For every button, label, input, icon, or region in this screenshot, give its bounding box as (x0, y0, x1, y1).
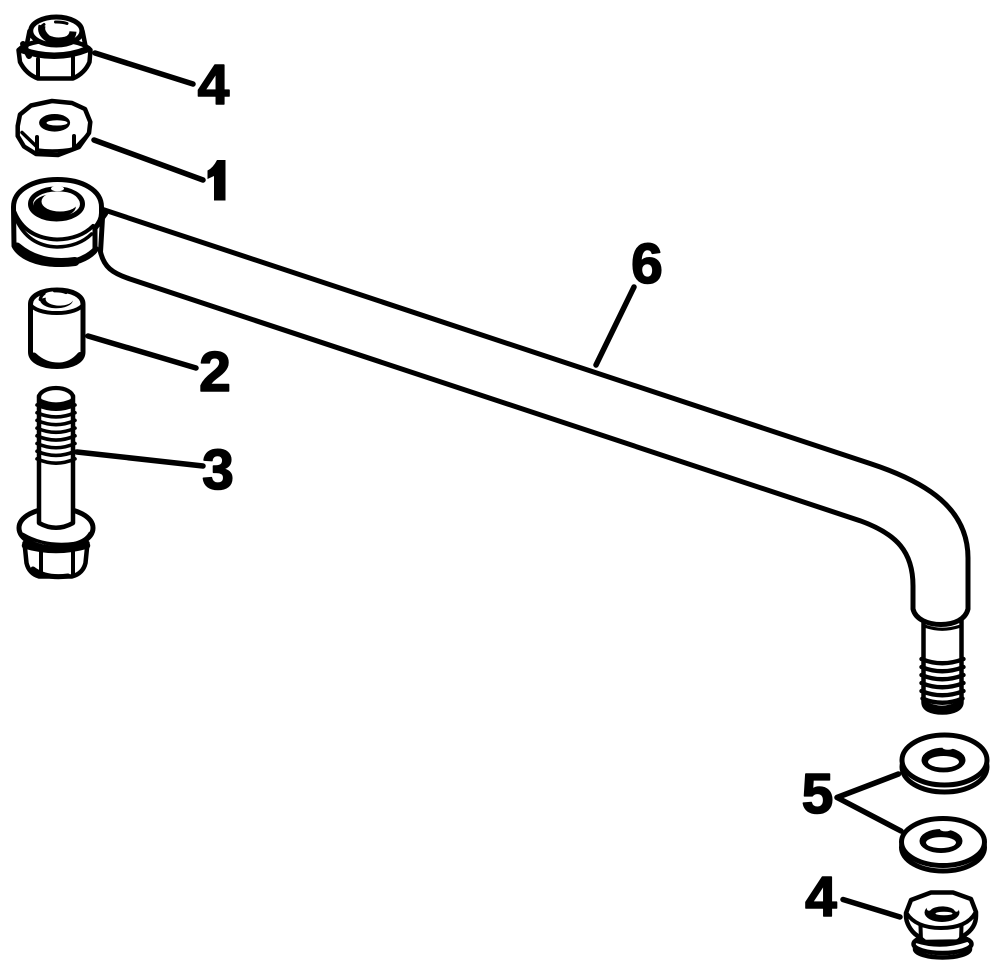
washer 5 (lower) (902, 819, 985, 872)
leader line to label 4 (top) (95, 53, 193, 84)
washer 5 (upper) (902, 735, 987, 792)
nut 4 (bottom flange lock nut) (906, 893, 976, 958)
leader line to label 2 (88, 336, 196, 368)
link rod 6 (eye boss at left end) (14, 180, 107, 265)
nut 4 (top nylon lock nut) (19, 17, 91, 79)
leader line to label 4 (bottom) (843, 900, 900, 918)
label 1 (208, 160, 226, 201)
svg-text:4: 4 (198, 53, 230, 117)
svg-text:6: 6 (631, 232, 663, 296)
link rod 6 (arm body with bend and shoulder) (101, 210, 969, 630)
spacer bushing 2 (31, 290, 84, 367)
leader line to label 6 (596, 287, 634, 365)
leader lines to label 5 (837, 774, 901, 831)
leader line to label 1 (94, 140, 203, 180)
svg-text:2: 2 (199, 340, 231, 404)
flange bolt 3 (19, 388, 93, 577)
svg-text:5: 5 (802, 762, 834, 826)
leader line to label 3 (77, 452, 203, 466)
link rod 6 (threaded stud end) (922, 618, 964, 713)
nut 1 (hex nut) (18, 101, 91, 155)
svg-text:3: 3 (202, 438, 234, 502)
svg-text:4: 4 (805, 865, 837, 929)
